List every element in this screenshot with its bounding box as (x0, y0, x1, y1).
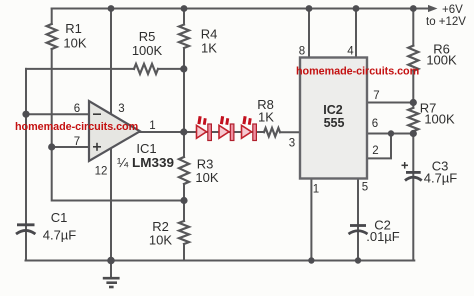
svg-text:R1: R1 (65, 21, 82, 36)
svg-text:C1: C1 (51, 210, 68, 225)
svg-text:7: 7 (74, 136, 80, 148)
svg-text:10K: 10K (195, 170, 218, 185)
svg-text:1K: 1K (258, 110, 274, 125)
svg-text:10K: 10K (149, 233, 172, 248)
svg-text:4.7µF: 4.7µF (43, 228, 77, 243)
svg-text:homemade-circuits.com: homemade-circuits.com (296, 65, 419, 77)
svg-text:4: 4 (347, 46, 354, 58)
svg-text:10K: 10K (63, 36, 86, 51)
svg-text:8: 8 (299, 46, 305, 58)
svg-text:1: 1 (149, 120, 155, 132)
svg-text:6: 6 (74, 103, 80, 115)
svg-text:.01µF: .01µF (366, 229, 400, 244)
svg-text:4.7µF: 4.7µF (424, 171, 458, 186)
svg-text:+6V: +6V (442, 4, 463, 16)
svg-text:¼ LM339: ¼ LM339 (117, 155, 174, 170)
svg-text:7: 7 (373, 90, 379, 102)
svg-text:1: 1 (313, 184, 319, 196)
svg-text:2: 2 (372, 145, 378, 157)
svg-text:IC1: IC1 (136, 141, 156, 156)
svg-text:100K: 100K (132, 43, 163, 58)
svg-text:5: 5 (362, 182, 368, 194)
svg-text:100K: 100K (426, 53, 457, 68)
svg-text:R4: R4 (201, 27, 218, 42)
svg-text:3: 3 (289, 138, 295, 150)
svg-text:1K: 1K (201, 41, 217, 56)
svg-text:3: 3 (118, 103, 124, 115)
svg-text:R5: R5 (139, 29, 156, 44)
svg-text:IC2: IC2 (323, 103, 343, 117)
svg-text:12: 12 (95, 166, 108, 178)
svg-text:555: 555 (324, 116, 345, 130)
svg-text:to +12V: to +12V (426, 16, 466, 28)
svg-text:100K: 100K (424, 112, 455, 127)
svg-text:homemade-circuits.com: homemade-circuits.com (15, 121, 138, 133)
svg-text:6: 6 (372, 118, 378, 130)
